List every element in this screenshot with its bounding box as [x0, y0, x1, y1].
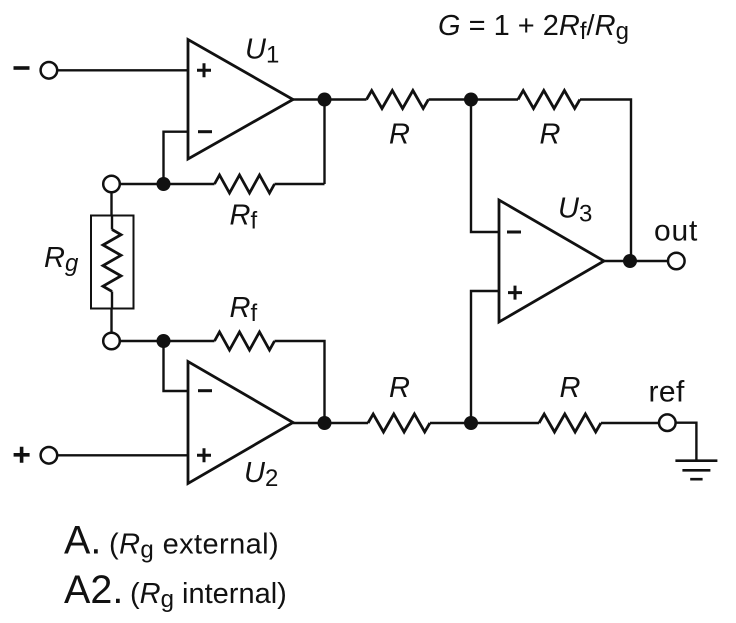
resistor R top-right [518, 91, 580, 109]
svg-text:ref: ref [649, 375, 685, 408]
op-amp U3 [499, 200, 604, 322]
wire plus input to U2 [57, 454, 188, 456]
resistor R bottom-right [539, 414, 601, 432]
svg-text:out: out [654, 215, 698, 248]
node U2 feedback junction [157, 334, 171, 348]
wire Rg top lead [110, 192, 112, 215]
svg-text:Rf: Rf [230, 200, 258, 235]
wire U3 output to out terminal [604, 260, 668, 262]
op-amp U1 [188, 40, 293, 160]
svg-text:R: R [389, 119, 410, 151]
svg-text:(Rg internal): (Rg internal) [130, 578, 287, 613]
wire U1 minus input feedback [164, 132, 189, 184]
wire ref to ground [676, 423, 697, 461]
resistor R top-left [367, 91, 429, 109]
wire Rg bottom lead [110, 309, 112, 333]
node U2 output junction [318, 416, 332, 430]
wire to ref terminal [601, 422, 659, 424]
wire Rf bottom to U2 output column [275, 341, 325, 423]
node U1 feedback junction [157, 177, 171, 191]
svg-text:U3: U3 [558, 193, 592, 228]
op-amp U2 [188, 362, 293, 484]
wire U1 output [293, 98, 367, 100]
svg-text:U1: U1 [245, 34, 279, 69]
wire bottom node up to U3 plus input [471, 291, 499, 423]
wire Rg-bottom row [120, 340, 215, 342]
wire minus input to U1 [57, 69, 188, 71]
wire between bottom resistors [430, 422, 539, 424]
node Rg-top terminal [103, 176, 120, 193]
node out terminal [668, 253, 685, 270]
resistor Rf bottom [215, 332, 275, 350]
node out junction [623, 254, 637, 268]
node bottom middle junction [464, 416, 478, 430]
wire between top resistors [429, 98, 519, 100]
ground [675, 461, 717, 480]
node Rg-bottom terminal [103, 333, 120, 350]
svg-text:R: R [560, 372, 581, 404]
node minus-input [14, 66, 30, 70]
svg-text:Rg: Rg [44, 242, 79, 277]
wire Rg-top row [120, 183, 215, 185]
svg-text:R: R [389, 372, 410, 404]
node top middle junction [464, 93, 478, 107]
svg-text:A2.: A2. [64, 568, 123, 612]
wire U2 output [293, 422, 368, 424]
svg-text:G = 1 + 2Rf/Rg: G = 1 + 2Rf/Rg [438, 10, 629, 45]
wire U1 output down to Rf [323, 100, 325, 185]
svg-text:R: R [540, 119, 561, 151]
node U1 output junction [318, 93, 332, 107]
svg-text:U2: U2 [244, 457, 278, 492]
resistor R bottom-left [368, 414, 430, 432]
node ref terminal [659, 414, 676, 431]
resistor Rf top [215, 175, 275, 193]
resistor Rg (boxed) [91, 216, 134, 309]
svg-text:Rf: Rf [230, 292, 258, 327]
svg-text:A.: A. [64, 519, 101, 563]
svg-text:(Rg external): (Rg external) [109, 529, 279, 564]
node plus-input [14, 447, 30, 463]
wire top-right corner down to out node [580, 100, 631, 262]
wire U2 minus input feedback [164, 341, 189, 391]
wire node down to U3 minus input [471, 100, 499, 233]
